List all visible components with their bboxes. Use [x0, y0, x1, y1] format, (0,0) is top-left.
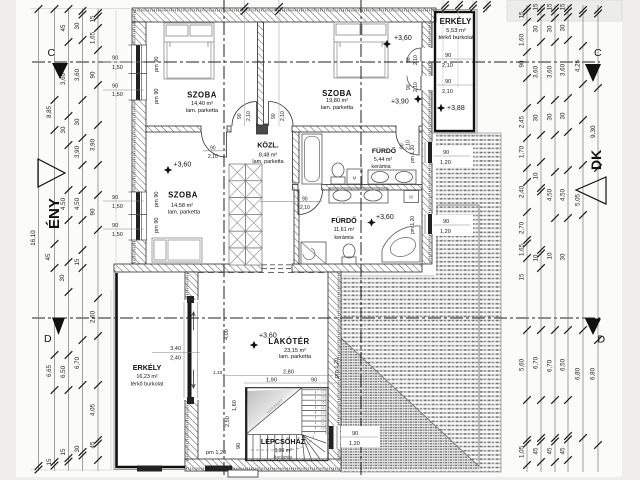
svg-text:2,10: 2,10 — [208, 154, 218, 160]
svg-text:6,70: 6,70 — [547, 359, 554, 372]
svg-text:19,80 m²: 19,80 m² — [326, 98, 348, 104]
svg-text:2,80: 2,80 — [283, 370, 294, 376]
svg-text:3,60: 3,60 — [74, 68, 81, 81]
svg-text:90: 90 — [302, 197, 308, 203]
svg-text:2,45: 2,45 — [519, 115, 526, 128]
svg-text:ERKÉLY: ERKÉLY — [133, 363, 162, 372]
svg-text:6,80: 6,80 — [590, 367, 597, 380]
svg-text:pm 90: pm 90 — [154, 191, 160, 207]
svg-text:SZOBA: SZOBA — [187, 91, 217, 100]
svg-text:LÉPCSŐHÁZ: LÉPCSŐHÁZ — [261, 437, 306, 446]
svg-text:3,96 m²: 3,96 m² — [274, 448, 292, 454]
svg-text:kerámia: kerámia — [334, 235, 353, 241]
svg-text:10: 10 — [321, 427, 325, 431]
svg-text:6,80: 6,80 — [575, 367, 582, 380]
svg-text:15: 15 — [547, 3, 554, 10]
svg-text:6,50: 6,50 — [560, 358, 567, 371]
svg-text:10: 10 — [533, 172, 540, 179]
svg-text:10: 10 — [547, 252, 554, 259]
svg-text:30: 30 — [60, 126, 67, 133]
svg-text:2,40: 2,40 — [170, 356, 181, 362]
svg-text:15: 15 — [519, 11, 526, 18]
svg-text:2,40: 2,40 — [519, 185, 526, 198]
svg-text:30: 30 — [74, 445, 81, 452]
svg-text:90: 90 — [519, 60, 526, 67]
svg-text:lam. parketta: lam. parketta — [186, 108, 219, 114]
svg-text:1,20: 1,20 — [349, 441, 360, 447]
svg-text:4,25: 4,25 — [575, 59, 582, 72]
svg-text:2,50: 2,50 — [225, 416, 231, 427]
svg-text:12: 12 — [321, 416, 325, 420]
svg-text:KÖZL.: KÖZL. — [257, 141, 279, 150]
svg-text:kerámia: kerámia — [274, 455, 293, 461]
svg-text:+3,60: +3,60 — [174, 162, 192, 169]
svg-text:30: 30 — [547, 25, 554, 32]
svg-text:térkő burkolat: térkő burkolat — [131, 382, 164, 388]
svg-text:1,50: 1,50 — [112, 92, 123, 98]
svg-text:térkő burkolat: térkő burkolat — [438, 35, 474, 41]
svg-text:6,70: 6,70 — [533, 356, 540, 369]
svg-text:lam. parketta: lam. parketta — [321, 105, 354, 111]
svg-text:SZOBA: SZOBA — [168, 191, 198, 200]
svg-text:pm 1,20: pm 1,20 — [334, 358, 340, 378]
svg-text:30: 30 — [74, 22, 81, 29]
svg-text:90: 90 — [210, 146, 216, 152]
svg-text:3,60: 3,60 — [560, 63, 567, 76]
svg-text:1,10: 1,10 — [213, 370, 223, 376]
svg-text:1,20: 1,20 — [440, 229, 451, 235]
svg-text:5,44 m²: 5,44 m² — [374, 157, 392, 163]
svg-text:15: 15 — [321, 401, 325, 405]
svg-text:45: 45 — [60, 24, 67, 31]
svg-text:45: 45 — [547, 447, 554, 454]
svg-text:30: 30 — [533, 25, 540, 32]
svg-text:90: 90 — [236, 443, 242, 449]
svg-text:90: 90 — [112, 223, 118, 229]
svg-text:1,50: 1,50 — [112, 65, 123, 71]
svg-text:2,10: 2,10 — [413, 55, 419, 65]
svg-text:45: 45 — [560, 447, 567, 454]
svg-text:ÉNY: ÉNY — [46, 198, 63, 229]
svg-text:ERKÉLY: ERKÉLY — [440, 17, 472, 26]
svg-text:90: 90 — [352, 431, 358, 437]
svg-text:+3,60: +3,60 — [394, 35, 412, 42]
svg-text:11: 11 — [321, 422, 325, 426]
svg-text:1,50: 1,50 — [112, 204, 123, 210]
svg-text:90: 90 — [445, 79, 451, 85]
svg-text:15: 15 — [90, 15, 97, 22]
svg-text:14: 14 — [321, 406, 325, 410]
svg-text:D: D — [598, 334, 606, 346]
svg-text:5,05: 5,05 — [575, 193, 582, 206]
svg-text:6,50: 6,50 — [60, 365, 67, 378]
svg-text:lam. parketta: lam. parketta — [279, 354, 312, 360]
svg-text:5,53 m²: 5,53 m² — [446, 28, 466, 34]
svg-text:C: C — [48, 47, 56, 59]
svg-text:2,60: 2,60 — [90, 310, 97, 323]
svg-text:1,90: 1,90 — [266, 378, 277, 384]
svg-text:6,65: 6,65 — [46, 364, 53, 377]
svg-text:2,70: 2,70 — [519, 221, 526, 234]
svg-text:pm 1,20: pm 1,20 — [206, 450, 226, 456]
svg-text:1,50: 1,50 — [112, 232, 123, 238]
svg-text:8,48 m²: 8,48 m² — [259, 153, 277, 159]
svg-text:SZOBA: SZOBA — [322, 89, 352, 98]
svg-text:1,65: 1,65 — [519, 243, 526, 256]
svg-text:15: 15 — [533, 3, 540, 10]
svg-text:C: C — [594, 47, 602, 59]
svg-text:1,05: 1,05 — [519, 445, 526, 458]
svg-text:1,65: 1,65 — [90, 31, 97, 44]
svg-text:2,10: 2,10 — [246, 111, 252, 121]
svg-text:15: 15 — [560, 3, 567, 10]
svg-text:3,60: 3,60 — [533, 65, 540, 78]
svg-text:pm 90: pm 90 — [154, 217, 160, 233]
svg-text:30: 30 — [560, 253, 567, 260]
svg-text:4,50: 4,50 — [74, 197, 81, 210]
svg-text:kerámia: kerámia — [371, 164, 390, 170]
svg-text:1,70: 1,70 — [519, 145, 526, 158]
svg-text:14,58 m²: 14,58 m² — [171, 203, 193, 209]
svg-text:2,10: 2,10 — [442, 89, 453, 95]
svg-text:30: 30 — [533, 114, 540, 121]
svg-text:3,40: 3,40 — [170, 346, 181, 352]
svg-text:1,20: 1,20 — [440, 160, 451, 166]
svg-text:M: M — [353, 176, 357, 181]
svg-text:11,61 m²: 11,61 m² — [334, 227, 355, 233]
svg-text:+3,90: +3,90 — [391, 99, 409, 106]
svg-text:2,10: 2,10 — [413, 82, 419, 92]
svg-text:15: 15 — [519, 273, 526, 280]
svg-text:pm 1,20: pm 1,20 — [410, 145, 416, 163]
svg-text:90: 90 — [237, 113, 243, 119]
svg-text:8,85: 8,85 — [46, 105, 53, 118]
svg-text:6,70: 6,70 — [74, 356, 81, 369]
svg-text:90: 90 — [406, 84, 412, 90]
svg-text:lam. parketta: lam. parketta — [252, 159, 283, 165]
svg-text:90: 90 — [90, 208, 97, 215]
svg-text:16: 16 — [321, 396, 325, 400]
svg-text:15: 15 — [74, 258, 81, 265]
svg-text:1,60: 1,60 — [519, 33, 526, 46]
svg-text:3,90: 3,90 — [74, 145, 81, 158]
svg-text:+3,60: +3,60 — [376, 214, 394, 221]
svg-text:FÜRDŐ: FÜRDŐ — [331, 216, 357, 225]
svg-text:4,00: 4,00 — [224, 329, 230, 340]
svg-text:15: 15 — [60, 448, 67, 455]
svg-text:90: 90 — [443, 150, 449, 156]
svg-text:30: 30 — [560, 112, 567, 119]
svg-text:lam. parketta: lam. parketta — [168, 210, 201, 216]
svg-text:DK: DK — [588, 150, 604, 170]
svg-text:1,60: 1,60 — [232, 400, 238, 411]
svg-text:45: 45 — [45, 253, 52, 260]
svg-text:90: 90 — [311, 378, 317, 384]
svg-text:90: 90 — [90, 71, 97, 78]
svg-text:+3,60: +3,60 — [259, 333, 277, 340]
svg-text:45: 45 — [90, 441, 97, 448]
svg-text:30: 30 — [547, 113, 554, 120]
svg-text:2,10: 2,10 — [280, 111, 286, 121]
svg-text:90: 90 — [112, 84, 118, 90]
svg-text:M: M — [409, 195, 413, 200]
svg-text:9,30: 9,30 — [590, 125, 597, 138]
svg-text:10: 10 — [533, 254, 540, 261]
svg-text:3,60: 3,60 — [547, 65, 554, 78]
svg-text:FÜRDŐ: FÜRDŐ — [372, 146, 396, 155]
svg-text:17: 17 — [321, 390, 325, 394]
svg-text:2,10: 2,10 — [442, 63, 453, 69]
svg-text:90: 90 — [445, 53, 451, 59]
svg-text:2,10: 2,10 — [300, 205, 310, 211]
svg-text:pm 90: pm 90 — [154, 88, 160, 104]
svg-text:14,40 m²: 14,40 m² — [191, 101, 213, 107]
svg-text:15: 15 — [46, 458, 53, 465]
svg-text:90: 90 — [112, 56, 118, 62]
svg-text:pm 90: pm 90 — [154, 56, 160, 72]
svg-text:4,50: 4,50 — [547, 188, 554, 201]
svg-text:13: 13 — [321, 411, 325, 415]
svg-text:90: 90 — [406, 57, 412, 63]
svg-text:4,05: 4,05 — [90, 403, 97, 416]
svg-text:90: 90 — [112, 195, 118, 201]
svg-text:3,90: 3,90 — [90, 138, 97, 151]
svg-text:90: 90 — [443, 219, 449, 225]
svg-text:pm 1,20: pm 1,20 — [410, 216, 416, 234]
svg-text:16,10: 16,10 — [30, 230, 37, 246]
svg-text:90: 90 — [271, 113, 277, 119]
svg-text:30: 30 — [74, 118, 81, 125]
svg-text:30: 30 — [59, 274, 66, 281]
svg-text:30: 30 — [560, 24, 567, 31]
svg-text:4,50: 4,50 — [560, 188, 567, 201]
svg-text:45: 45 — [533, 447, 540, 454]
svg-text:16,23 m²: 16,23 m² — [136, 374, 157, 380]
svg-text:D: D — [44, 333, 52, 345]
svg-text:+3,88: +3,88 — [447, 105, 465, 112]
svg-text:5,60: 5,60 — [519, 358, 526, 371]
